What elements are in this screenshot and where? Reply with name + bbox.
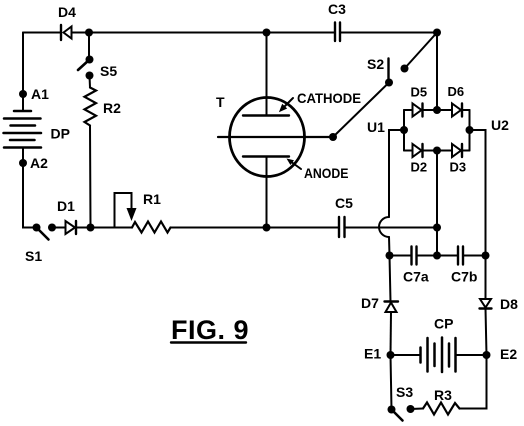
wire C7 row left segment xyxy=(390,255,412,257)
wire tube top lead xyxy=(266,33,268,116)
capacitor C5 xyxy=(339,217,345,237)
wire R1 to tube bottom junction xyxy=(171,227,267,229)
svg-text:C7b: C7b xyxy=(451,269,477,285)
wire S1 to D1 xyxy=(52,227,66,229)
switch S5 xyxy=(78,33,94,80)
wire C3 to top-right junction xyxy=(341,32,438,34)
node bridge top center xyxy=(433,106,441,114)
wire U1 branch left and down xyxy=(389,130,404,217)
node E2 xyxy=(483,351,491,359)
resistor R3 xyxy=(423,403,460,415)
node A1 xyxy=(19,90,27,98)
wire D7 branch top xyxy=(390,256,391,302)
wire hop to C7 row xyxy=(388,237,391,256)
node junction top-right xyxy=(433,29,441,37)
switch S3 xyxy=(388,405,415,421)
svg-text:A1: A1 xyxy=(31,86,49,102)
svg-text:D7: D7 xyxy=(361,295,379,311)
wire S2 lower diagonal xyxy=(333,83,389,138)
wire bridge top rail xyxy=(404,109,413,111)
tube T circle xyxy=(230,98,305,177)
svg-text:S2: S2 xyxy=(367,56,384,72)
switch S1 xyxy=(33,224,57,240)
wire C5 to junction xyxy=(345,227,437,229)
svg-text:R3: R3 xyxy=(434,387,452,403)
diode D2 xyxy=(413,144,423,157)
wire R3 to E2 vertical xyxy=(460,355,487,409)
svg-text:C7a: C7a xyxy=(403,269,429,285)
resistor R1 xyxy=(132,222,171,233)
svg-text:FIG. 9: FIG. 9 xyxy=(171,315,249,345)
FIG. 9 underline xyxy=(171,341,246,343)
wire D1 to junction xyxy=(76,227,91,229)
svg-text:U2: U2 xyxy=(491,117,509,133)
wire junction to R1 xyxy=(91,227,133,229)
diode D8 xyxy=(480,299,492,309)
svg-text:CP: CP xyxy=(434,316,453,332)
wire bridge top feed xyxy=(436,33,438,111)
diode D5 xyxy=(413,104,423,117)
svg-text:T: T xyxy=(216,94,225,110)
wire crossover hop xyxy=(379,217,389,237)
R1 wiper arrowhead xyxy=(127,208,137,221)
wire D8 to E2 xyxy=(486,309,487,356)
svg-text:R1: R1 xyxy=(143,191,161,207)
wire bridge left rail xyxy=(403,110,405,151)
svg-text:C3: C3 xyxy=(328,1,346,17)
svg-text:U1: U1 xyxy=(367,119,385,135)
arrow to cathode plate xyxy=(279,98,293,112)
wire A1 to battery xyxy=(22,94,24,111)
wire D8 branch top xyxy=(485,256,487,300)
node C7 row left xyxy=(386,252,394,260)
wire D4 to C3 xyxy=(72,32,335,34)
node bridge left U1 xyxy=(400,126,408,134)
diode D6 xyxy=(452,104,462,117)
diode D3 xyxy=(452,144,462,157)
svg-text:D1: D1 xyxy=(57,198,75,214)
svg-text:D4: D4 xyxy=(58,4,76,20)
svg-text:A2: A2 xyxy=(30,155,48,171)
wire bridge bottom to C5 row xyxy=(436,151,438,228)
wire R2 down to junction xyxy=(89,126,92,228)
battery DP xyxy=(4,111,42,148)
tube cathode plate xyxy=(243,114,289,116)
node C7 row right xyxy=(482,252,490,260)
svg-text:R2: R2 xyxy=(103,100,121,116)
svg-text:D8: D8 xyxy=(500,296,518,312)
battery CP xyxy=(421,338,456,373)
arrow to anode plate xyxy=(287,159,302,170)
node E1 xyxy=(387,351,395,359)
svg-text:CATHODE: CATHODE xyxy=(297,90,361,106)
switch S2 xyxy=(385,59,409,87)
diode D4 xyxy=(61,25,72,40)
wire E1 to CP xyxy=(391,354,421,356)
svg-text:S5: S5 xyxy=(100,63,117,79)
wire E1 down to S3 xyxy=(391,355,392,410)
wire tube junction to C5 xyxy=(267,227,339,229)
svg-text:E1: E1 xyxy=(364,346,381,362)
wire C7a to center xyxy=(417,255,437,257)
node junction tube top xyxy=(263,29,271,37)
wire A2 down and corner to S1 xyxy=(23,163,37,228)
svg-text:S3: S3 xyxy=(396,384,413,400)
wire down to C7 row center xyxy=(436,228,438,256)
wire battery to A2 xyxy=(22,148,24,164)
node C5 line junction xyxy=(433,224,441,232)
svg-text:S1: S1 xyxy=(25,248,42,264)
capacitor C7a xyxy=(412,247,417,265)
wire tube bottom lead xyxy=(266,157,268,228)
wire S2 upper diagonal xyxy=(405,33,438,69)
svg-text:DP: DP xyxy=(51,126,70,142)
tube anode plate xyxy=(243,155,289,157)
wire top-left horizontal to D4 xyxy=(23,32,61,34)
capacitor C3 xyxy=(335,23,340,42)
wire U2 branch right and down xyxy=(470,130,486,256)
wire D7 to E1 xyxy=(390,312,393,355)
wire C7b to right node xyxy=(464,255,486,257)
svg-text:D5: D5 xyxy=(411,85,428,100)
wire center to C7b xyxy=(437,255,458,257)
node A2 xyxy=(19,159,27,167)
node C7 row center xyxy=(433,252,441,260)
wire R1 wiper branch xyxy=(115,193,132,228)
node junction D1/R2 xyxy=(87,224,95,232)
wire S3 to R3 xyxy=(411,408,424,411)
node bridge right U2 xyxy=(466,126,474,134)
wire S5 to R2 xyxy=(89,76,92,88)
resistor R2 xyxy=(85,88,97,126)
capacitor C7b xyxy=(458,247,463,265)
svg-text:D3: D3 xyxy=(450,160,467,175)
diode bridge rails xyxy=(404,110,470,151)
svg-text:D6: D6 xyxy=(448,84,465,99)
node junction top-left xyxy=(85,29,93,37)
tube trigger line xyxy=(218,136,333,138)
node bridge bottom center xyxy=(433,147,441,155)
node tube bottom junction xyxy=(263,224,271,232)
svg-text:E2: E2 xyxy=(500,346,517,362)
svg-text:ANODE: ANODE xyxy=(304,165,349,181)
wire bridge bottom rail xyxy=(404,150,413,152)
wire CP to E2 xyxy=(456,354,487,356)
wire bridge right rail xyxy=(469,110,471,151)
svg-text:C5: C5 xyxy=(335,195,353,211)
diode D1 xyxy=(66,221,77,234)
node tube trigger xyxy=(329,133,337,141)
wire left vertical down to A1 xyxy=(22,33,24,95)
svg-text:D2: D2 xyxy=(411,160,428,175)
diode D7 xyxy=(385,302,399,313)
